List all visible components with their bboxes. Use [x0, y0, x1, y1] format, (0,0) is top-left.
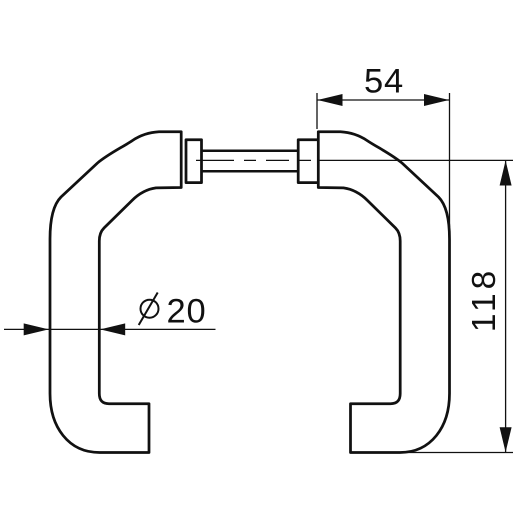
dimension line diameter 20: [4, 328, 216, 330]
54 right extension line: [449, 93, 451, 227]
arrow 54 right: [424, 94, 449, 106]
dimension line 118: [505, 160, 507, 452]
arrow 54 left: [318, 94, 343, 106]
118 top extension line (centerline extended right): [317, 159, 513, 161]
arrow 118 up: [500, 161, 512, 186]
arrow d20 pointing left: [100, 323, 125, 335]
svg-text:118: 118: [466, 267, 503, 332]
right handle outline (mirror): [318, 132, 449, 453]
arrow 118 down: [500, 427, 512, 452]
diameter symbol slash: [139, 293, 158, 326]
dimension line 54: [317, 99, 450, 101]
spindle centerline (dash-dot): [196, 159, 311, 161]
svg-text:54: 54: [364, 63, 404, 101]
spindle rod: [202, 151, 299, 172]
right neck boss: [298, 140, 318, 183]
118 bottom extension line: [399, 452, 513, 454]
left neck boss: [186, 140, 202, 183]
left handle outline: [50, 132, 181, 453]
svg-text:20: 20: [167, 292, 207, 330]
54 left extension line: [316, 93, 318, 129]
diameter symbol circle: [141, 300, 159, 318]
arrow d20 pointing right: [24, 323, 49, 335]
